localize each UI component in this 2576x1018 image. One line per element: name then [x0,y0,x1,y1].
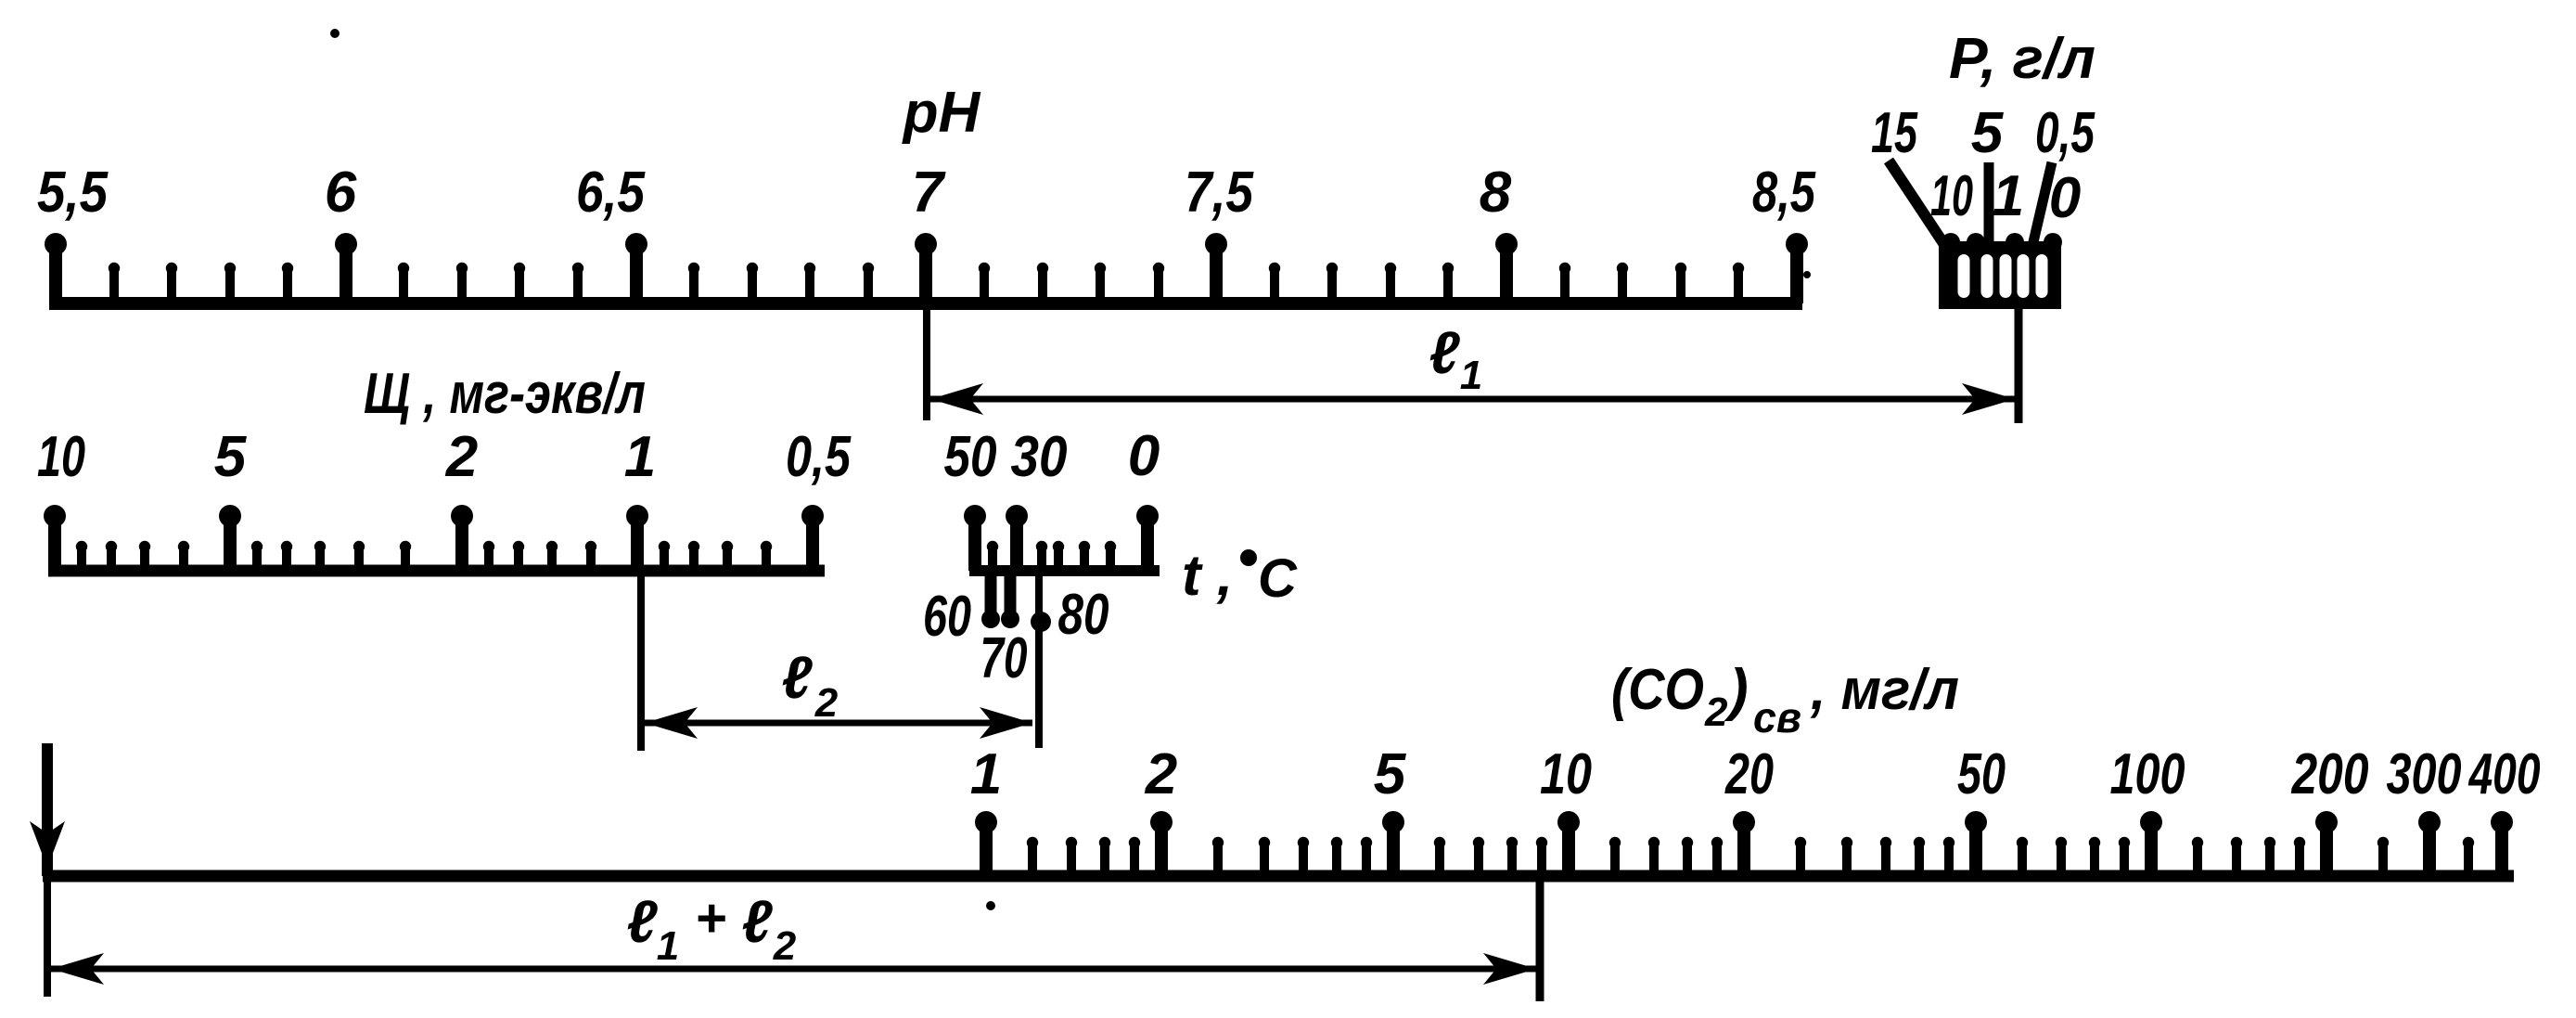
P scale lower labels 10 1 0 [1930,164,2081,230]
svg-text:0,5: 0,5 [786,425,852,489]
svg-text:ℓ: ℓ [1429,319,1460,386]
svg-text:100: 100 [2110,742,2185,806]
speck [330,29,340,38]
pH scale axis line [49,297,1802,310]
l2 arrow line [645,720,1032,727]
Shch scale minor ticks [82,547,766,571]
Shch scale axis line [48,565,825,577]
svg-text:300: 300 [2387,742,2462,806]
svg-text:2: 2 [445,425,478,489]
svg-text:Щ , мг-экв/л: Щ , мг-экв/л [364,362,646,426]
l1 arrowhead left [930,383,983,415]
l1+l2 label [626,888,796,969]
svg-text:ℓ: ℓ [741,888,773,955]
CO2 scale major ticks with dots [975,811,2513,876]
svg-text:ℓ: ℓ [781,644,813,711]
svg-text:t ,: t , [1182,544,1233,608]
l2 label [781,644,838,726]
pH scale number labels [37,161,1816,225]
Shch scale number labels [37,425,852,489]
svg-text:св: св [1753,693,1801,741]
svg-text:80: 80 [1058,583,1109,647]
t scale labels 60 70 80 [923,583,1109,690]
svg-text:1: 1 [970,742,1002,806]
l1 arrow line [930,396,2015,403]
svg-text:8,5: 8,5 [1752,161,1816,225]
svg-text:2: 2 [773,923,797,969]
svg-text:60: 60 [923,585,971,649]
t scale minor ticks [993,547,1110,571]
vertical guide line below pH=7 [923,303,930,420]
pH scale minor ticks [114,268,1738,303]
svg-text:+: + [695,888,726,948]
svg-text:2: 2 [1704,689,1728,735]
vertical guide line below P scale [2015,309,2023,423]
svg-text:7: 7 [912,161,946,225]
P scale upper labels 15 5 0,5 [1871,101,2095,165]
t scale hanging tick 60 [981,576,1000,628]
svg-text:5: 5 [1374,742,1407,806]
svg-text:1: 1 [1460,353,1482,398]
svg-text:7,5: 7,5 [1185,161,1254,225]
t scale labels 50 30 0 [944,424,1160,489]
svg-text:400: 400 [2467,742,2540,806]
l1+l2 arrowhead left [51,953,104,985]
svg-text:1: 1 [624,425,656,489]
CO2 title label [1611,658,1959,741]
svg-text:15: 15 [1871,101,1918,165]
svg-text:5: 5 [1971,101,2005,165]
svg-text:Р, г/л: Р, г/л [1949,27,2095,91]
svg-text:8: 8 [1480,161,1512,225]
speck [1803,271,1811,278]
CO2 scale minor ticks [1032,843,2468,876]
svg-text:2: 2 [1145,742,1177,806]
svg-text:рН: рН [902,81,981,145]
svg-text:30: 30 [1011,425,1068,489]
svg-text:200: 200 [2291,742,2369,806]
svg-text:10: 10 [1930,164,1973,228]
svg-text:20: 20 [1724,742,1774,806]
svg-text:ℓ: ℓ [626,888,658,955]
svg-text:(СО: (СО [1611,658,1704,722]
svg-text:2: 2 [814,680,839,726]
svg-text:0: 0 [1128,424,1160,488]
svg-text:, мг/л: , мг/л [1810,658,1959,722]
t scale hanging tick 70 [1001,576,1019,628]
t scale axis line [969,565,1160,576]
svg-text:10: 10 [37,425,85,489]
svg-text:6: 6 [325,161,357,225]
t scale major ticks with dots (50 30 0) [964,505,1159,571]
svg-text:0,5: 0,5 [2035,101,2095,165]
svg-text:1: 1 [1993,164,2024,228]
svg-text:70: 70 [980,626,1028,690]
vertical guide line below t=80 with dot [1031,576,1051,748]
l1+l2 arrow line [51,966,1536,973]
l1+l2 arrowhead right [1483,953,1536,985]
Shch scale major ticks with dots [44,505,824,571]
l2 arrowhead right [980,707,1032,739]
P scale pointer line for 15 [1889,161,1945,246]
vertical guide line below Shch=1 [637,571,645,751]
pH scale major ticks with dots [45,233,1808,303]
svg-text:0: 0 [2049,166,2081,230]
speck [986,901,995,910]
l1 arrowhead right [1962,383,2015,415]
P scale comb body [1939,233,2062,309]
P scale pointer line for 0,5 [2032,162,2052,246]
l1 label [1429,319,1482,398]
l2 arrowhead left [645,707,698,739]
svg-text:5: 5 [214,425,248,489]
svg-text:6,5: 6,5 [576,161,646,225]
P scale pointer line for 5 [1984,162,1994,246]
svg-text:5,5: 5,5 [37,161,109,225]
down arrow at CO2 scale origin [30,743,65,997]
svg-text:1: 1 [657,923,679,969]
svg-text:50: 50 [1957,742,2006,806]
t scale title [1182,544,1298,609]
vertical guide line below CO2=9 [1536,882,1544,1001]
svg-text:С: С [1258,548,1298,609]
CO2 scale number labels [970,742,2541,806]
svg-text:10: 10 [1540,742,1592,806]
CO2 scale axis line [43,870,2514,883]
svg-text:50: 50 [944,425,997,489]
